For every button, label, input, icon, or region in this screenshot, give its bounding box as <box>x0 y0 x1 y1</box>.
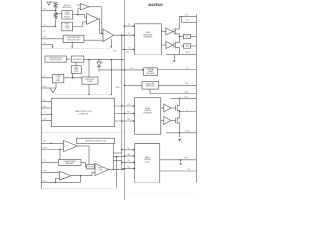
wire main in 3 <box>41 113 51 115</box>
bus line 1 vertical <box>123 0 125 200</box>
svg-text:GATE DRIVE CONTROL LOGIC: GATE DRIVE CONTROL LOGIC <box>85 140 106 143</box>
node diode top <box>98 59 100 61</box>
wire U4 out <box>78 145 90 147</box>
op-amp U2 <box>87 14 99 25</box>
node mo1 bus2 <box>121 105 123 107</box>
ground G2 <box>50 88 56 93</box>
svg-text:OSCILLATOR: OSCILLATOR <box>73 58 82 61</box>
wire POR gnd drop <box>55 83 57 88</box>
wire U1 output <box>89 6 102 8</box>
node osc-E <box>88 59 90 61</box>
svg-text:PA3: PA3 <box>127 159 130 162</box>
svg-text:POWER: POWER <box>87 81 92 83</box>
wire vertical 113 <box>112 143 114 169</box>
svg-text:ON: ON <box>57 78 59 80</box>
svg-text:CSP: CSP <box>43 37 46 39</box>
box B1 text <box>64 12 70 18</box>
wire vdd2 drop <box>179 98 181 104</box>
diode D1 <box>97 62 101 67</box>
svg-text:GND2: GND2 <box>43 180 47 182</box>
mosfet M3 <box>176 105 180 112</box>
wire stub 156 <box>113 156 124 158</box>
resistor R2 <box>54 12 57 19</box>
node E-sep2 <box>88 94 89 95</box>
svg-text:BANDGAP: BANDGAP <box>147 82 154 85</box>
pwm text <box>99 168 103 172</box>
wire main out2 <box>115 113 135 115</box>
svg-text:PA2: PA2 <box>127 153 130 156</box>
svg-text:COMPUTATION AND: COMPUTATION AND <box>66 36 81 39</box>
arrow mode down <box>52 46 54 48</box>
arrow d1 in1 <box>133 25 135 27</box>
node vdd2 <box>179 98 180 99</box>
node main in3 <box>51 114 53 116</box>
wire main out3 <box>115 120 135 122</box>
node pgnd2 <box>179 132 180 133</box>
wire stub 160 <box>113 160 121 162</box>
wire OUT2 left stub <box>181 45 184 47</box>
svg-text:CURRENT-SENSE: CURRENT-SENSE <box>64 161 76 163</box>
section separator dotted 2 <box>54 93 112 95</box>
wire M1 source to node <box>178 34 179 37</box>
node mo3 bus2 <box>121 120 123 122</box>
svg-text:PGND1: PGND1 <box>185 52 190 54</box>
wire mid vertical 111 <box>110 60 112 95</box>
driver2 text <box>143 107 152 114</box>
box driver1 dual high-side <box>135 24 162 55</box>
svg-text:EN: EN <box>44 42 46 44</box>
wire VDD rail to regulator <box>99 69 144 71</box>
node filter-bus <box>124 85 126 87</box>
svg-text:SELECT: SELECT <box>64 16 70 18</box>
node d1 in1 <box>124 25 126 27</box>
box POR text <box>55 76 60 82</box>
node d3 in3 <box>121 162 123 164</box>
wire osc to level shift <box>75 62 77 66</box>
box bandgap filter <box>142 82 159 90</box>
svg-text:MAX5944: MAX5944 <box>148 3 162 7</box>
svg-text:ILIM: ILIM <box>43 30 47 32</box>
wire stub crossing arrow <box>110 39 112 46</box>
wire B1 output <box>73 14 78 16</box>
chip right border line <box>195 14 197 182</box>
wire gnd drop d1 <box>173 54 175 59</box>
wire pwm lower in <box>92 172 95 175</box>
wire level shift down <box>72 74 74 78</box>
wire d3 out1 drop <box>180 160 182 162</box>
box B1 overdrive select <box>62 11 73 19</box>
wire B2 output <box>73 22 87 27</box>
node d3 out1 <box>180 159 182 161</box>
wire PGND rail d1 <box>166 53 196 55</box>
wire ea in2 drop <box>59 150 61 160</box>
arrow d3 in1 <box>133 149 135 151</box>
wire E bottom stub <box>88 84 90 94</box>
svg-text:PA1: PA1 <box>127 147 130 150</box>
wire main out1 <box>115 105 135 107</box>
wire M3 leads <box>179 105 181 112</box>
node d3 in4 <box>124 168 126 170</box>
svg-text:PBIAS: PBIAS <box>116 86 120 89</box>
svg-text:OUT2: OUT2 <box>185 46 189 48</box>
op-amp error amp2 U4 <box>64 141 78 152</box>
wire clk branch <box>122 35 135 49</box>
wire A2 gate <box>173 44 174 46</box>
wire d3 in4 <box>122 168 135 170</box>
wire filter agnd L <box>150 89 196 93</box>
label error amplifier <box>63 5 73 9</box>
node out1 <box>179 36 181 38</box>
svg-text:GND: GND <box>43 86 47 88</box>
arrow mo3 <box>133 120 135 122</box>
arrow d3 in4 <box>133 168 135 170</box>
svg-text:POWER: POWER <box>55 76 60 78</box>
wire A3 gate <box>171 107 176 109</box>
box current sense <box>58 160 81 166</box>
mosfet M2 <box>174 42 178 49</box>
wire d1 ch2 stub <box>161 44 166 46</box>
svg-text:VDD2: VDD2 <box>184 96 188 98</box>
svg-text:RESET: RESET <box>56 80 61 82</box>
svg-text:VDD: VDD <box>130 68 133 70</box>
driver1 buffer A1 <box>166 28 173 35</box>
arrow into driver1 mid <box>133 34 135 36</box>
wire comp down leg <box>71 42 73 46</box>
box filter text <box>146 82 156 87</box>
box computation text <box>66 36 81 41</box>
box main control logic <box>52 98 115 126</box>
chip left border line <box>40 0 42 189</box>
box chip power <box>82 77 98 84</box>
node LX <box>179 111 181 113</box>
node clk cross <box>124 49 126 51</box>
svg-text:OVER-: OVER- <box>65 12 71 14</box>
svg-text:LX: LX <box>186 109 188 111</box>
wire OUT1 to border <box>191 36 197 38</box>
node osc-111 <box>111 59 113 61</box>
svg-text:COMP: COMP <box>42 147 47 149</box>
wire U1 out vertical <box>101 7 103 34</box>
svg-text:FB2: FB2 <box>43 141 46 143</box>
ground arrow d1 <box>173 60 176 62</box>
wire CF pin <box>41 25 55 27</box>
box gate drive control <box>77 138 115 143</box>
svg-text:CS: CS <box>44 112 46 114</box>
svg-text:INTERNAL: INTERNAL <box>147 68 154 71</box>
node FB junction <box>55 10 57 12</box>
svg-text:CORE BLOCK: CORE BLOCK <box>79 113 89 115</box>
svg-text:PW3: PW3 <box>127 119 130 121</box>
arrow into regulator <box>142 69 144 71</box>
node U1 feed <box>101 33 103 35</box>
section separator dotted 1 <box>41 47 111 49</box>
node stub 156 <box>116 156 118 158</box>
box driver3 <box>135 144 160 183</box>
wire d3 in2 <box>124 155 134 157</box>
svg-text:PW2: PW2 <box>127 111 130 113</box>
wire gnd drop d2 <box>179 133 181 137</box>
box B2 text <box>65 24 71 30</box>
section separator dotted 3 <box>41 132 124 134</box>
svg-text:MULTI-CTRL UNIT: MULTI-CTRL UNIT <box>67 39 80 41</box>
wire regulator out <box>158 69 197 71</box>
node B1 out <box>77 14 79 16</box>
wire PGND2 rail <box>166 132 196 134</box>
arrow mo2 <box>133 113 135 115</box>
svg-text:SHIFT: SHIFT <box>74 69 78 71</box>
box protection text <box>49 57 63 62</box>
wire prot to osc <box>66 58 71 60</box>
svg-text:DRIVERS: DRIVERS <box>144 37 153 39</box>
mosfet M4 <box>176 117 180 124</box>
svg-text:REF: REF <box>185 83 188 85</box>
arrow d3 in3 <box>133 161 135 163</box>
box driver2 <box>135 98 161 134</box>
wire d3 out2 <box>160 170 197 172</box>
driver1 buffer A2 <box>166 42 173 49</box>
wire mode pin <box>41 43 52 45</box>
svg-text:DRIVE: DRIVE <box>65 14 70 16</box>
svg-text:VDD: VDD <box>126 52 129 54</box>
bus line 2 vertical <box>121 35 123 168</box>
svg-text:SYNC: SYNC <box>43 118 48 120</box>
wire filter out <box>159 84 197 86</box>
wire d3 out1 <box>160 159 197 161</box>
svg-text:SDA: SDA <box>43 105 46 108</box>
wire opamp U6 in1 pin <box>41 172 59 174</box>
wire U6 out <box>71 175 92 177</box>
box chip power text <box>85 79 94 83</box>
op-amp PWM comparator U5 <box>95 164 109 176</box>
wire agnd pin <box>41 87 50 89</box>
wire R2 bottom <box>55 19 57 27</box>
wire ea in1 pin <box>41 142 63 144</box>
box cs text <box>64 161 76 165</box>
node bst branch <box>181 16 182 17</box>
driver1 text <box>143 31 153 38</box>
wire POR to E <box>64 77 82 79</box>
wire BST2 branch <box>182 16 197 22</box>
svg-text:LOGIC: LOGIC <box>144 161 150 163</box>
ground G1 <box>47 2 51 5</box>
svg-text:LEVEL: LEVEL <box>74 67 79 69</box>
ground arrow d2 <box>178 139 181 141</box>
svg-text:PGND: PGND <box>184 158 189 160</box>
svg-text:CS1: CS1 <box>43 160 46 162</box>
wire vertical 116 <box>116 157 118 188</box>
mosfet M1 <box>174 28 178 35</box>
svg-text:LOGIC: LOGIC <box>74 71 78 73</box>
box internal regulator <box>144 68 158 76</box>
wire U6 fb drop <box>80 176 82 183</box>
node bus2 tap <box>121 34 123 36</box>
wire main in 4 <box>41 119 51 121</box>
box protection <box>45 56 66 62</box>
wire osc output <box>84 59 125 61</box>
svg-text:AMPLIFIER: AMPLIFIER <box>63 6 73 9</box>
wire U2 output jog <box>98 19 103 34</box>
svg-text:DRIVERS: DRIVERS <box>143 112 152 114</box>
wire M2 source to PGND rail <box>178 47 179 54</box>
box main text <box>75 110 92 115</box>
box OUT1 small <box>184 34 191 38</box>
wire R1-R2 link <box>55 9 57 13</box>
svg-text:PWM: PWM <box>113 51 117 53</box>
node ea in1 <box>50 143 52 145</box>
node 111-sep2 <box>111 94 112 95</box>
arrow d3 in2 <box>133 155 135 157</box>
wire OUT2 to border <box>191 45 197 47</box>
wire d3 in3 <box>122 161 135 163</box>
svg-text:SCL: SCL <box>43 99 46 101</box>
node d3 in2 <box>124 155 126 157</box>
svg-text:BST1: BST1 <box>186 20 190 22</box>
svg-text:PGND2: PGND2 <box>185 131 190 133</box>
wire fb up <box>54 178 56 182</box>
wire u6 in2 stub <box>55 177 59 179</box>
wire M1 drain to BST rail <box>178 16 179 29</box>
wire U3 output <box>114 34 135 36</box>
wire main in 1 <box>41 101 51 103</box>
node d3 in1 <box>121 149 123 151</box>
node vdd-bus <box>124 69 126 71</box>
wire diode top stub <box>98 60 100 62</box>
svg-text:OUT1: OUT1 <box>185 36 189 38</box>
wire vdd2 rail <box>170 97 196 99</box>
driver2 buffer A4 <box>164 117 171 125</box>
wire node to box OUT1 <box>179 36 183 38</box>
svg-text:IN2: IN2 <box>128 33 130 35</box>
wire POR input pin <box>41 77 52 79</box>
wire A1 gate <box>173 31 174 33</box>
svg-text:CLK: CLK <box>127 47 130 49</box>
wire comp output <box>84 39 103 41</box>
node bus1 tap <box>124 34 126 36</box>
svg-text:PW1: PW1 <box>127 104 130 106</box>
svg-text:MAIN CONTROL LOGIC: MAIN CONTROL LOGIC <box>75 110 92 113</box>
node u6 out <box>80 175 82 177</box>
box oscillator <box>71 56 84 62</box>
svg-text:INP: INP <box>43 171 46 173</box>
wire M2 drain up <box>178 37 179 43</box>
arrow clk in <box>133 49 135 51</box>
box level shift text <box>74 67 79 73</box>
op-amp U6 <box>60 171 71 180</box>
faint dotted bottom line <box>130 193 194 195</box>
wire driver1 input 1 <box>124 25 134 27</box>
wire bottom pin <box>41 181 80 183</box>
wire d3 in1 <box>122 149 135 151</box>
wire box B1 input stub <box>56 13 62 15</box>
svg-text:FB: FB <box>44 8 46 10</box>
wire U4 out drop <box>88 146 90 164</box>
section separator dotted 4 <box>41 188 116 190</box>
wire ea in2 pin <box>41 149 63 151</box>
wire up to U1 <box>77 8 79 15</box>
wire diode bottom stub <box>98 67 100 70</box>
node fb <box>55 182 57 184</box>
wire main in 2 <box>41 107 51 109</box>
wire M4 source down <box>179 123 181 133</box>
svg-text:ON: ON <box>43 76 45 78</box>
wire E top feed <box>88 60 90 77</box>
svg-text:PA4: PA4 <box>127 165 130 168</box>
wire comp input pin <box>41 38 63 40</box>
wire cs out <box>81 162 87 166</box>
svg-text:5.8V: 5.8V <box>98 71 101 73</box>
wire LX out <box>180 111 197 113</box>
wire d2 ch2 stub <box>161 120 164 122</box>
node POR wire junction <box>72 77 74 79</box>
wire d2 ch1 stub <box>161 107 164 109</box>
driver3 text <box>144 156 152 163</box>
svg-text:SLOPE: SLOPE <box>88 166 92 168</box>
node vdd-111 <box>111 69 113 71</box>
wire cs in pin <box>41 161 58 163</box>
svg-text:VEE: VEE <box>187 169 190 171</box>
box B2 soft start <box>62 22 73 31</box>
wire mode down stub <box>52 44 54 46</box>
arrow comp down <box>71 46 73 48</box>
node mo2 bus1 <box>124 113 126 115</box>
svg-text:CIRCUIT DETECT: CIRCUIT DETECT <box>50 60 62 62</box>
svg-text:CHIP ON/OFF: CHIP ON/OFF <box>85 79 94 81</box>
wire pwm out <box>109 169 125 171</box>
op-amp U1 <box>80 4 89 10</box>
arrow mo1 <box>133 105 135 107</box>
arrow crossing down <box>110 46 112 48</box>
svg-text:VDD1: VDD1 <box>184 14 188 16</box>
wire U1 lower input stub <box>78 7 80 9</box>
svg-text:CMP: CMP <box>99 170 102 172</box>
node ea in2 <box>59 149 61 151</box>
wire stub 153 <box>113 152 121 154</box>
svg-text:OVERLOAD/SHORT: OVERLOAD/SHORT <box>49 57 63 60</box>
node CF junction <box>55 26 57 28</box>
wire top rail <box>49 1 56 3</box>
box level shift <box>71 66 81 74</box>
box slope comp <box>87 164 95 169</box>
op-amp U3 <box>103 29 114 42</box>
wire filter input <box>124 84 142 86</box>
svg-text:AGND: AGND <box>184 90 189 93</box>
wire d1 ch1 stub <box>161 31 166 33</box>
wire slope to pwm <box>93 166 96 168</box>
box POR <box>53 75 64 83</box>
ground arrow d3 <box>179 163 181 165</box>
svg-text:SOFT-: SOFT- <box>65 24 70 26</box>
wire FB pin <box>41 9 55 11</box>
wire B1 to U2 jog <box>78 15 87 18</box>
wire A4 gate <box>171 120 176 122</box>
driver2 buffer A3 <box>164 104 171 112</box>
svg-text:CF: CF <box>44 24 46 26</box>
svg-text:IN1: IN1 <box>128 24 130 26</box>
node pwm out bus <box>121 169 123 171</box>
wire U1 upper input stub <box>77 4 80 6</box>
box OUT2 small <box>184 44 191 48</box>
svg-text:VCC: VCC <box>186 67 190 69</box>
wire M4 drain up <box>179 112 181 119</box>
node pwm out 113 <box>113 169 115 171</box>
box regulator text <box>146 68 154 75</box>
svg-text:LOGIC: LOGIC <box>65 28 71 30</box>
box computation and control <box>63 35 84 42</box>
resistor R1 <box>54 2 57 9</box>
wire BST rail <box>179 15 196 17</box>
